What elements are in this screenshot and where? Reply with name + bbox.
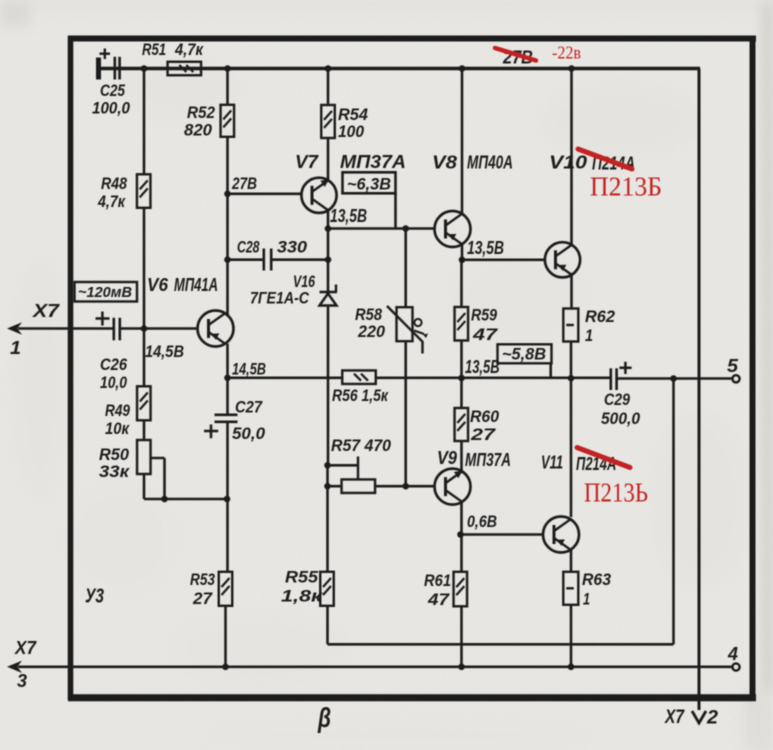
svg-text:C26: C26	[100, 355, 127, 374]
junction R57 wiper tap	[324, 462, 331, 469]
svg-text:1,8к: 1,8к	[281, 587, 324, 606]
resistor R61	[454, 572, 468, 607]
label pin 5	[727, 356, 739, 376]
callout box ~120mV	[75, 282, 138, 302]
wire V8 collector to top rail	[461, 69, 464, 214]
label R61 47	[424, 571, 451, 609]
svg-text:R55: R55	[285, 568, 319, 587]
label R62 1	[585, 307, 616, 345]
svg-text:R56 1,5к: R56 1,5к	[332, 386, 389, 405]
resistor R52	[221, 105, 235, 137]
label pin 4	[727, 644, 738, 664]
resistor R56	[342, 370, 376, 384]
svg-text:500,0: 500,0	[601, 409, 640, 428]
svg-text:C27: C27	[235, 398, 263, 417]
svg-text:13,5В: 13,5В	[467, 238, 504, 258]
svg-text:C29: C29	[604, 390, 630, 409]
wire V9 collector down to R61	[460, 502, 463, 572]
svg-text:27: 27	[470, 425, 497, 444]
label V9 MP37A	[437, 448, 511, 470]
wire callout 5,8V connector	[549, 363, 552, 378]
label V8 MP40A	[432, 153, 513, 173]
junction R50 wiper	[161, 496, 168, 503]
label V16 7GE1A-S	[250, 272, 315, 308]
resistor R48	[137, 174, 151, 208]
svg-text:10,0: 10,0	[100, 373, 127, 392]
junction top rail / R48	[141, 65, 148, 72]
wire R58 top lead	[404, 229, 407, 308]
svg-text:33к: 33к	[99, 462, 131, 481]
svg-text:330: 330	[277, 238, 308, 257]
red annotation -22v	[552, 43, 581, 63]
label C29 500,0	[601, 390, 640, 428]
junction ground / R63	[568, 664, 575, 671]
label 13,5V at V8	[467, 238, 504, 258]
callout box ~5,8V	[498, 344, 552, 363]
capacitor C26	[96, 312, 198, 341]
capacitor C29	[611, 362, 733, 390]
label R56 1,5k	[332, 386, 389, 405]
resistor R55	[320, 572, 334, 606]
arrow X7 pin 1 input	[7, 322, 114, 334]
svg-text:14,5В: 14,5В	[145, 342, 184, 361]
svg-text:~120мВ: ~120мВ	[78, 284, 132, 301]
wire R50 bottom to C27 node	[144, 474, 227, 499]
label R49 10k	[105, 401, 130, 438]
junction R50 / R53 node	[224, 496, 231, 503]
svg-text:820: 820	[184, 121, 213, 140]
svg-text:R57 470: R57 470	[331, 436, 392, 455]
wire R58 bottom lead	[404, 341, 407, 486]
diode V16	[320, 285, 338, 306]
label C27 50,0	[232, 398, 266, 444]
svg-text:R63: R63	[582, 570, 612, 589]
svg-text:V6: V6	[147, 275, 169, 295]
label R52 820	[184, 103, 215, 140]
resistor R54	[321, 105, 335, 138]
svg-text:R49: R49	[105, 401, 130, 420]
svg-text:~5,8В: ~5,8В	[502, 345, 546, 364]
arrow X7 pin 3	[7, 661, 733, 673]
variable resistor R57	[342, 479, 376, 493]
svg-text:V7: V7	[295, 152, 319, 172]
resistor R53	[219, 572, 233, 606]
wire callout 6,3V connector	[394, 193, 397, 228]
red strike over P214A bottom	[577, 448, 630, 468]
svg-text:100: 100	[338, 122, 364, 141]
wire V8 emitter to V10 base	[462, 258, 545, 261]
svg-text:10к: 10к	[105, 419, 130, 438]
arrow X7 pin 2 downward	[692, 711, 706, 723]
svg-text:1: 1	[583, 590, 590, 609]
red annotation P213b bottom	[584, 478, 648, 508]
svg-text:R48: R48	[101, 174, 127, 193]
wire output rail middle segment	[376, 376, 610, 379]
wire R62 to rail	[570, 342, 573, 379]
junction V9 collector / V11 base	[457, 531, 464, 538]
label 13,5V at rail	[465, 357, 500, 377]
svg-text:27В: 27В	[231, 174, 257, 193]
border frame of unit U3	[68, 36, 756, 700]
label C28 330	[237, 238, 308, 257]
svg-text:100,0: 100,0	[92, 99, 130, 118]
svg-text:V10: V10	[549, 153, 587, 173]
svg-text:1: 1	[10, 338, 21, 358]
wire output rail left segment	[228, 376, 343, 379]
transistor V9	[435, 469, 471, 505]
wire R48 to input node	[143, 208, 146, 329]
wire V16 anode down to R57 tap	[327, 306, 330, 466]
svg-text:47: 47	[472, 325, 499, 344]
label V10 P214A	[549, 153, 635, 174]
wire R49 to R50	[143, 420, 146, 440]
wire V16 string down to R55	[326, 465, 329, 572]
wire V11 collector to rail	[570, 378, 573, 517]
label R55 1,8k	[281, 568, 324, 606]
transistor V8	[435, 211, 471, 247]
svg-text:R52: R52	[187, 103, 215, 122]
junction top rail / V8 collector	[459, 65, 466, 72]
svg-text:1: 1	[585, 326, 593, 345]
wire R60 to V9 emitter	[460, 441, 463, 472]
svg-text:4,7к: 4,7к	[174, 40, 204, 59]
wire V8 emitter to R59	[460, 260, 463, 307]
svg-text:У3: У3	[85, 586, 104, 608]
wire rail to R60	[460, 378, 463, 408]
wire V7 emitter down	[327, 210, 330, 259]
label X7 3	[14, 638, 37, 691]
label 13,5V at V7	[330, 206, 367, 226]
svg-text:14,5В: 14,5В	[232, 360, 266, 379]
label R59 47	[471, 306, 499, 345]
svg-text:X7: X7	[32, 301, 60, 321]
label C25 100,0	[92, 81, 130, 118]
svg-text:β: β	[317, 702, 331, 733]
wire R52 bottom to V6 collector	[226, 137, 229, 317]
transistor V11	[543, 517, 579, 553]
svg-text:220: 220	[357, 322, 385, 341]
transistor V6	[198, 311, 234, 347]
variable resistor R57 wiper	[328, 457, 359, 480]
junction R62 / rail	[568, 375, 575, 382]
junction rail / feedback drop	[670, 375, 677, 382]
wire R52 top lead	[226, 69, 229, 106]
capacitor C27	[204, 415, 238, 438]
label V11 P214A	[541, 453, 616, 475]
label R48 4,7k	[97, 174, 127, 211]
wire V6 emitter down to rail	[226, 344, 229, 378]
wire feedback from rail to R55	[328, 379, 674, 645]
red strike over P214A top	[578, 149, 632, 169]
label R53 27	[190, 570, 215, 608]
svg-text:50,0: 50,0	[232, 424, 266, 443]
wire R54 top lead	[327, 69, 330, 106]
junction V8 emitter node	[459, 257, 466, 264]
wire R59 to rail	[460, 341, 463, 379]
label 27V supply struck	[502, 48, 533, 68]
svg-text:П213Ь: П213Ь	[584, 478, 648, 508]
wire R61 to ground rail	[460, 606, 463, 667]
junction R57 left node	[324, 483, 331, 490]
junction V7 base node	[224, 191, 231, 198]
label C26 10,0	[100, 355, 127, 392]
junction V6 emitter / rail	[224, 375, 231, 382]
svg-text:R59: R59	[471, 306, 497, 325]
svg-text:X7: X7	[664, 707, 685, 728]
svg-text:V8: V8	[432, 153, 457, 173]
capacitor C25	[96, 49, 120, 80]
label R60 27	[470, 407, 500, 444]
label X7 1 input	[10, 301, 60, 358]
svg-text:~6,3В: ~6,3В	[347, 175, 391, 194]
svg-text:47: 47	[427, 590, 451, 609]
svg-text:27: 27	[192, 589, 214, 608]
label 14,5V at V6 base	[145, 342, 184, 361]
resistor R60	[455, 408, 469, 441]
label R51 4,7k	[142, 40, 204, 59]
wire V11 emitter to R63	[570, 550, 573, 572]
resistor R63	[563, 572, 578, 605]
svg-text:V9: V9	[437, 448, 457, 468]
svg-text:13,5В: 13,5В	[465, 357, 500, 377]
svg-text:МП41А: МП41А	[174, 275, 218, 295]
wire to V11 base	[461, 533, 544, 536]
svg-text:R61: R61	[424, 571, 451, 590]
label U3 unit	[85, 586, 104, 608]
junction C28 right node	[325, 256, 332, 263]
svg-text:R62: R62	[585, 307, 616, 326]
callout box ~6,3V	[343, 172, 396, 193]
junction input node / R48-R49	[141, 325, 148, 332]
junction top rail / R52	[224, 65, 231, 72]
wire R55 bottom to feedback line	[326, 606, 329, 645]
label V6 MP41A	[147, 275, 218, 295]
potentiometer R50	[137, 440, 164, 499]
svg-text:4: 4	[727, 644, 738, 664]
svg-text:R51: R51	[142, 40, 166, 59]
junction top rail / V10 collector	[568, 65, 575, 72]
svg-text:П213Б: П213Б	[590, 172, 662, 202]
wire V7 emitter node to V8 base	[328, 227, 435, 230]
svg-text:4,7к: 4,7к	[97, 192, 126, 211]
wire R53 to ground rail	[224, 606, 227, 667]
wire C27 to R53	[226, 422, 229, 572]
svg-text:V11: V11	[541, 453, 563, 473]
wire V10 emitter to R62	[570, 275, 573, 309]
junction ground / R53	[222, 664, 229, 671]
junction ground / R61	[458, 664, 465, 671]
label R57 470	[331, 436, 392, 455]
red annotation P213B top	[590, 172, 662, 202]
label 27V	[231, 174, 257, 193]
label R54 100	[338, 105, 369, 141]
junction R58 top node	[402, 225, 409, 232]
wire V7 base	[228, 193, 302, 196]
svg-text:МП40А: МП40А	[467, 153, 513, 173]
wire V6 emitter rail to C27	[226, 378, 229, 414]
label 14,5V at V6 emitter	[232, 360, 266, 379]
wire input node to R49	[143, 329, 146, 387]
wire top -22V supply rail	[101, 67, 701, 70]
resistor R62	[563, 309, 578, 342]
transistor V7	[301, 178, 336, 213]
junction C28 left node	[224, 256, 231, 263]
pin 5 terminal	[732, 375, 739, 382]
label R58 220	[355, 305, 386, 341]
svg-text:X7: X7	[14, 638, 37, 658]
wire R48 top lead	[143, 69, 146, 175]
resistor R49	[137, 386, 151, 420]
junction top rail / R54	[325, 65, 332, 72]
svg-text:5: 5	[727, 356, 739, 376]
svg-text:13,5В: 13,5В	[330, 206, 367, 226]
svg-text:R53: R53	[190, 570, 215, 589]
junction R58 bottom / V9 base	[402, 483, 409, 490]
svg-text:7ГЕ1А-С: 7ГЕ1А-С	[250, 289, 310, 308]
wire right supply drop to pin X7-2	[698, 69, 701, 711]
capacitor C28	[228, 249, 329, 271]
svg-text:-22в: -22в	[552, 43, 581, 63]
svg-text:0,6В: 0,6В	[467, 512, 497, 531]
svg-text:C28: C28	[237, 238, 260, 257]
resistor R59	[455, 307, 469, 341]
wire R57 left lead	[328, 485, 342, 488]
transistor V10	[545, 242, 580, 277]
wire R63 to ground rail	[570, 605, 573, 667]
label R63 1	[582, 570, 612, 609]
junction V7 emitter node	[325, 225, 332, 232]
wire V8 emitter down	[461, 244, 464, 260]
resistor R51	[168, 62, 202, 76]
variable resistor R58	[387, 306, 428, 354]
svg-text:C25: C25	[100, 81, 125, 100]
svg-text:МП37А: МП37А	[340, 152, 406, 172]
label v bottom	[317, 702, 331, 733]
svg-text:3: 3	[17, 671, 27, 691]
red strike over 27V	[495, 48, 536, 61]
svg-text:2: 2	[706, 708, 718, 729]
wire V10 collector to top rail	[570, 69, 573, 245]
label V7 MP37A	[295, 152, 406, 172]
junction R59-R60 / rail	[458, 375, 465, 382]
wire R57 right to V9 base	[375, 485, 435, 488]
label X7 2 bottom right	[664, 707, 718, 729]
svg-text:R60: R60	[470, 407, 500, 426]
wire V16 cathode lead	[327, 260, 330, 292]
label 0,6V	[467, 512, 497, 531]
label R50 33k	[99, 445, 131, 481]
pin 4 terminal	[732, 663, 739, 670]
wire R54 bottom to V7 collector	[327, 138, 330, 181]
svg-text:МП37А: МП37А	[465, 450, 511, 470]
